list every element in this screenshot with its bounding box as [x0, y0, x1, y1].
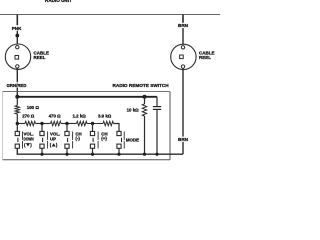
junction dot bus at 10k [143, 95, 147, 99]
svg-text:3.9 kΩ: 3.9 kΩ [98, 113, 112, 118]
svg-text:MODE: MODE [126, 138, 139, 143]
svg-text:(-): (-) [75, 136, 80, 141]
svg-text:(+): (+) [101, 136, 107, 141]
svg-text:PNK: PNK [12, 26, 22, 31]
box top edge [3, 91, 171, 93]
junction dot bottom L2 [40, 153, 43, 156]
switch VOL UP leg [41, 124, 43, 132]
cable reel right (circle) [171, 44, 196, 69]
resistor R 100 ohm vertical [16, 97, 18, 106]
svg-text:REEL: REEL [199, 55, 211, 60]
svg-text:REEL: REEL [34, 55, 46, 60]
wire [36, 123, 51, 125]
inner square of left cable reel [15, 56, 19, 60]
wire BRN label down to bottom bus corner [182, 142, 184, 154]
junction dot bottom L5 [117, 153, 120, 156]
junction dot chain L4 [91, 122, 94, 125]
svg-text:BRN: BRN [178, 137, 189, 142]
junction dot chain L3 [65, 122, 68, 125]
box right edge [169, 92, 171, 160]
wire GRN/RED to bus [16, 88, 18, 98]
inner square of right cable reel [180, 55, 184, 59]
resistor R 270 ohm [25, 121, 36, 125]
wire BRN to right cable reel [182, 28, 184, 45]
terminal top of left cable reel [16, 46, 19, 49]
svg-text:RADIO REMOTE SWITCH: RADIO REMOTE SWITCH [112, 83, 169, 88]
wire [87, 123, 104, 125]
svg-text:UP: UP [50, 136, 56, 141]
junction dot bottom 10k [143, 153, 146, 156]
junction dot on PNK wire [15, 34, 19, 38]
svg-text:1.2 kΩ: 1.2 kΩ [73, 113, 87, 118]
junction dot bottom cap [155, 153, 158, 156]
wire right stub BRN [182, 15, 184, 23]
capacitor plates [153, 106, 161, 108]
wire resistor chain [17, 123, 25, 125]
terminal top of right cable reel [181, 46, 184, 49]
svg-text:470 Ω: 470 Ω [49, 113, 62, 118]
wire right reel down to BRN label [182, 68, 184, 136]
cable reel left (circle) [5, 44, 30, 69]
junction dot bottom L4 [91, 153, 94, 156]
wire left reel to GRN/RED [16, 68, 18, 82]
resistor R 3.9k [103, 121, 114, 125]
svg-text:DOWN: DOWN [24, 136, 34, 141]
svg-text:270 Ω: 270 Ω [22, 113, 35, 118]
resistor R 10k vertical [144, 97, 146, 104]
junction dot bottom L3 [65, 153, 68, 156]
terminal bottom of left cable reel [16, 65, 19, 68]
capacitor branch [156, 97, 158, 107]
junction dot chain L1 [16, 122, 19, 125]
svg-text:GRN/RED: GRN/RED [7, 83, 27, 88]
box bottom edge [3, 159, 171, 161]
svg-text:10 kΩ: 10 kΩ [127, 107, 140, 112]
switch CH minus leg [66, 124, 68, 132]
terminal bottom of right cable reel [181, 65, 184, 68]
wire internal top bus [17, 96, 157, 98]
wire PNK to cable reel [16, 31, 18, 45]
junction dot chain L2 [40, 122, 43, 125]
resistor R 470 ohm [51, 121, 62, 125]
junction dot bus left [15, 95, 19, 99]
wire [61, 123, 77, 125]
svg-text:BRN: BRN [178, 23, 189, 28]
box left edge (faint) [2, 92, 4, 160]
svg-text:100 Ω: 100 Ω [27, 105, 40, 110]
svg-text:RADIO UNIT: RADIO UNIT [45, 0, 72, 3]
switch VOL DOWN leg [16, 124, 18, 132]
wire chain end to MODE leg [114, 124, 120, 132]
resistor R 1.2k [77, 121, 88, 125]
wire left stub PNK [16, 15, 18, 26]
switch CH plus leg [92, 124, 94, 132]
switch MODE leg [117, 131, 121, 135]
wire bottom bus [17, 148, 183, 154]
wire top rail [0, 14, 220, 16]
